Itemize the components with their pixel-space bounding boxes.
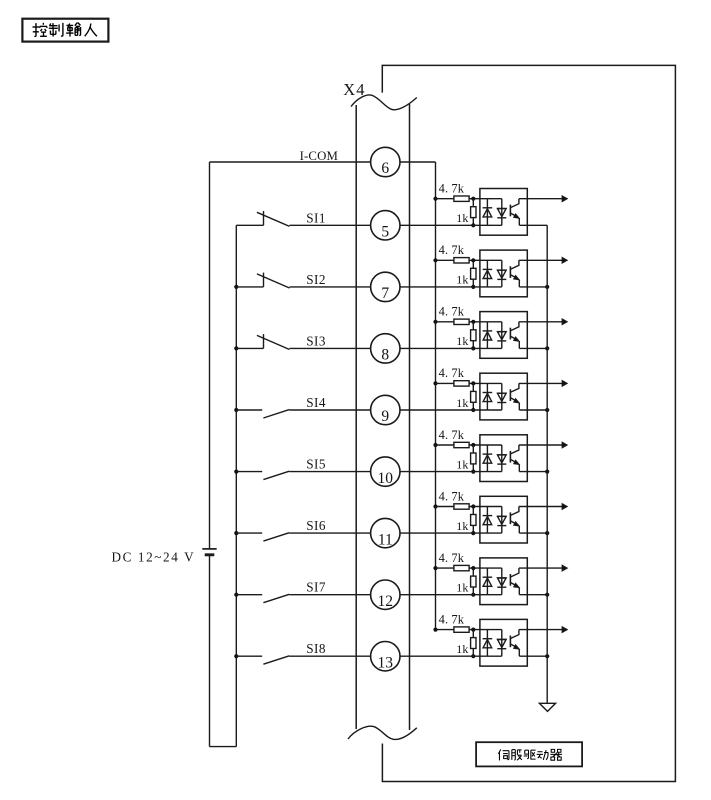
resistor R3b 1k xyxy=(472,322,474,330)
junction emitter bus (unit 8) xyxy=(545,654,549,658)
output wire with arrow (unit 4) xyxy=(519,382,562,384)
wire pin 9 to opto input (unit 4) xyxy=(400,409,502,411)
svg-text:1k: 1k xyxy=(456,211,468,225)
svg-text:SI4: SI4 xyxy=(306,395,326,410)
resistor R6a 4.7k xyxy=(436,506,454,508)
opto U5 LED D2 (down) xyxy=(497,454,507,456)
junction at pin row (unit 4) xyxy=(471,408,475,412)
unit 3 : junction on right bus xyxy=(433,320,437,324)
svg-text:10: 10 xyxy=(378,470,394,487)
wire pin 6 to right bus xyxy=(400,161,436,163)
junction SI5 on common bus xyxy=(234,470,238,474)
opto U8 LED D2 (down) xyxy=(497,638,507,640)
resistor R8a 4.7k xyxy=(436,629,454,631)
opto U6 LED rails xyxy=(486,507,488,534)
switch S8 for SI8 xyxy=(236,655,262,657)
junction emitter bus (unit 5) xyxy=(545,470,549,474)
wire pin 7 to opto input (unit 2) xyxy=(400,286,502,288)
unit 6 : junction on right bus xyxy=(433,504,437,508)
pin 13 circle xyxy=(371,642,400,671)
optocoupler U2 body xyxy=(480,250,527,297)
unit 4 : junction on right bus xyxy=(433,381,437,385)
junction after 4.7k (unit 7) xyxy=(471,566,475,570)
opto U7 LED rails xyxy=(486,568,488,595)
resistor R4a 4.7k xyxy=(436,382,454,384)
opto U3 LED rails xyxy=(486,322,488,349)
junction emitter bus (unit 3) xyxy=(545,346,549,350)
svg-text:12: 12 xyxy=(378,593,394,610)
opto U8 LED D1 (up) xyxy=(483,638,493,640)
junction at pin row (unit 1) xyxy=(471,223,475,227)
switch S3 for SI3 xyxy=(236,347,263,349)
svg-text:1k: 1k xyxy=(456,457,468,471)
opto U2 LED D1 (up) xyxy=(483,268,493,270)
junction at pin row (unit 7) xyxy=(471,593,475,597)
pin 7 circle xyxy=(371,272,400,301)
emitter wire (unit 7) xyxy=(519,594,547,596)
pin 8 circle xyxy=(371,334,400,363)
svg-text:SI3: SI3 xyxy=(306,333,326,348)
title box 控制输入 (control input) xyxy=(22,19,108,42)
opto U3 LED D2 (down) xyxy=(497,331,507,333)
optocoupler U6 body xyxy=(480,496,527,543)
output wire with arrow (unit 8) xyxy=(519,629,562,631)
resistor R5a 4.7k xyxy=(436,444,454,446)
resistor R1a 4.7k xyxy=(436,198,454,200)
svg-text:4. 7k: 4. 7k xyxy=(439,428,465,442)
emitter wire (unit 3) xyxy=(519,347,547,349)
unit 8 : junction on right bus xyxy=(433,628,437,632)
svg-text:1k: 1k xyxy=(456,581,468,595)
battery bus lower segment xyxy=(209,555,211,747)
junction SI2 on common bus xyxy=(234,285,238,289)
junction after 4.7k (unit 3) xyxy=(471,320,475,324)
opto U6 LED D1 (up) xyxy=(483,515,493,517)
unit 2 : junction on right bus xyxy=(433,258,437,262)
wire pin 8 to opto input (unit 3) xyxy=(400,347,502,349)
junction emitter bus (unit 7) xyxy=(545,593,549,597)
battery B1 positive plate xyxy=(202,548,216,550)
svg-text:DC 12~24 V: DC 12~24 V xyxy=(112,550,196,565)
pin 11 circle xyxy=(371,518,400,547)
resistor R2b 1k xyxy=(472,260,474,268)
junction emitter bus (unit 6) xyxy=(545,531,549,535)
svg-text:13: 13 xyxy=(378,654,394,671)
junction SI3 on common bus xyxy=(234,346,238,350)
svg-text:4. 7k: 4. 7k xyxy=(439,612,465,626)
opto U5 LED rails xyxy=(486,445,488,472)
svg-text:4. 7k: 4. 7k xyxy=(439,243,465,257)
opto U8 phototransistor Q8 xyxy=(509,636,511,648)
connector top break squiggle xyxy=(351,95,417,110)
svg-text:6: 6 xyxy=(381,160,389,177)
svg-text:SI2: SI2 xyxy=(306,272,326,287)
optocoupler U8 body xyxy=(480,619,527,666)
junction at pin row (unit 8) xyxy=(471,654,475,658)
resistor R8b 1k xyxy=(472,630,474,638)
connector X4 right rail xyxy=(409,104,411,730)
optocoupler U5 body xyxy=(480,435,527,482)
emitter common bus xyxy=(546,225,548,703)
resistor R5b 1k xyxy=(472,445,474,453)
connector X4 left rail xyxy=(355,105,357,729)
junction after 4.7k (unit 8) xyxy=(471,628,475,632)
svg-text:7: 7 xyxy=(381,285,389,302)
switch common bus (left) xyxy=(235,225,237,746)
svg-text:5: 5 xyxy=(381,224,389,241)
optocoupler U3 body xyxy=(480,312,527,359)
emitter wire (unit 8) xyxy=(519,655,547,657)
resistor R3a 4.7k xyxy=(436,321,454,323)
unit 7 : junction on right bus xyxy=(433,566,437,570)
svg-text:4. 7k: 4. 7k xyxy=(439,366,465,380)
svg-text:4. 7k: 4. 7k xyxy=(439,305,465,319)
right bus from I-COM down to last 4.7k tee xyxy=(435,162,437,630)
output wire with arrow (unit 1) xyxy=(519,198,562,200)
svg-text:SI1: SI1 xyxy=(306,210,326,225)
svg-text:11: 11 xyxy=(378,531,393,548)
pin 6 circle xyxy=(371,147,400,176)
resistor R1b 1k xyxy=(472,199,474,207)
wire pin 10 to opto input (unit 5) xyxy=(400,471,502,473)
junction after 4.7k (unit 4) xyxy=(471,381,475,385)
unit 1 : junction on right bus xyxy=(433,197,437,201)
emitter wire (unit 5) xyxy=(519,471,547,473)
output wire with arrow (unit 3) xyxy=(519,321,562,323)
switch S4 for SI4 xyxy=(236,409,262,411)
wire pin 13 to opto input (unit 8) xyxy=(400,655,502,657)
svg-text:1k: 1k xyxy=(456,519,468,533)
output wire with arrow (unit 6) xyxy=(519,506,562,508)
junction at pin row (unit 2) xyxy=(471,285,475,289)
resistor R4b 1k xyxy=(472,383,474,391)
switch S7 for SI7 xyxy=(236,594,262,596)
pin 12 circle xyxy=(371,580,400,609)
junction SI8 on common bus xyxy=(234,654,238,658)
opto U1 LED rails xyxy=(486,199,488,226)
junction SI7 on common bus xyxy=(234,593,238,597)
svg-text:4. 7k: 4. 7k xyxy=(439,551,465,565)
junction at pin row (unit 5) xyxy=(471,470,475,474)
opto U7 phototransistor Q7 xyxy=(509,574,511,586)
svg-text:1k: 1k xyxy=(456,396,468,410)
svg-text:SI8: SI8 xyxy=(306,641,326,656)
opto U4 LED D2 (down) xyxy=(497,392,507,394)
pin 10 circle xyxy=(371,457,400,486)
optocoupler U7 body xyxy=(480,558,527,605)
svg-text:1k: 1k xyxy=(456,273,468,287)
opto U1 LED D1 (up) xyxy=(483,207,493,209)
svg-text:8: 8 xyxy=(381,347,389,364)
output wire with arrow (unit 5) xyxy=(519,444,562,446)
opto U1 phototransistor Q1 xyxy=(509,205,511,217)
opto U6 LED D2 (down) xyxy=(497,515,507,517)
connector bottom break squiggle xyxy=(348,726,417,739)
opto U1 LED D2 (down) xyxy=(497,208,507,210)
svg-text:SI7: SI7 xyxy=(306,580,326,595)
junction after 4.7k (unit 6) xyxy=(471,504,475,508)
junction emitter bus (unit 4) xyxy=(545,408,549,412)
switch S2 for SI2 xyxy=(236,286,263,288)
bottom link wire between buses xyxy=(210,746,237,748)
opto U6 phototransistor Q6 xyxy=(509,512,511,524)
optocoupler U4 body xyxy=(480,373,527,420)
junction after 4.7k (unit 2) xyxy=(471,258,475,262)
opto U2 phototransistor Q2 xyxy=(509,266,511,278)
wire pin 12 to opto input (unit 7) xyxy=(400,594,502,596)
opto U3 phototransistor Q3 xyxy=(509,328,511,340)
svg-text:1k: 1k xyxy=(456,334,468,348)
svg-text:SI5: SI5 xyxy=(306,457,326,472)
ground symbol xyxy=(539,703,555,711)
opto U4 LED rails xyxy=(486,383,488,410)
resistor R2a 4.7k xyxy=(436,259,454,261)
optocoupler U1 body xyxy=(480,189,527,236)
opto U7 LED D1 (up) xyxy=(483,576,493,578)
wire pin 11 to opto input (unit 6) xyxy=(400,532,502,534)
emitter wire (unit 1) xyxy=(519,224,547,226)
opto U4 LED D1 (up) xyxy=(483,392,493,394)
svg-text:I-COM: I-COM xyxy=(300,149,338,163)
resistor R7a 4.7k xyxy=(436,567,454,569)
junction emitter bus (unit 2) xyxy=(545,285,549,289)
opto U5 phototransistor Q5 xyxy=(509,451,511,463)
junction after 4.7k (unit 5) xyxy=(471,443,475,447)
opto U4 phototransistor Q4 xyxy=(509,389,511,401)
junction at pin row (unit 6) xyxy=(471,531,475,535)
switch S6 for SI6 xyxy=(236,532,262,534)
unit 5 : junction on right bus xyxy=(433,443,437,447)
opto U8 LED rails xyxy=(486,630,488,657)
switch S5 for SI5 xyxy=(236,471,262,473)
opto U2 LED D2 (down) xyxy=(497,269,507,271)
label box 伺服驱动器 (servo driver) xyxy=(476,742,582,766)
output wire with arrow (unit 7) xyxy=(519,567,562,569)
emitter wire (unit 4) xyxy=(519,409,547,411)
resistor R6b 1k xyxy=(472,507,474,515)
svg-text:4. 7k: 4. 7k xyxy=(439,182,465,196)
svg-text:SI6: SI6 xyxy=(306,518,326,533)
battery bus (left) upper segment xyxy=(209,162,211,549)
junction SI4 on common bus xyxy=(234,408,238,412)
emitter wire (unit 2) xyxy=(519,286,547,288)
emitter wire (unit 6) xyxy=(519,532,547,534)
output wire with arrow (unit 2) xyxy=(519,259,562,261)
opto U5 LED D1 (up) xyxy=(483,453,493,455)
servo driver enclosure frame xyxy=(382,65,675,781)
resistor R7b 1k xyxy=(472,568,474,576)
junction SI6 on common bus xyxy=(234,531,238,535)
junction at pin row (unit 3) xyxy=(471,346,475,350)
opto U3 LED D1 (up) xyxy=(483,330,493,332)
pin 9 circle xyxy=(371,395,400,424)
pin 5 circle xyxy=(371,211,400,240)
switch S1 for SI1 xyxy=(236,224,263,226)
svg-text:4. 7k: 4. 7k xyxy=(439,489,465,503)
opto U2 LED rails xyxy=(486,260,488,287)
svg-text:9: 9 xyxy=(381,408,389,425)
wire I-COM from battery + bus to pin 6 xyxy=(210,161,371,163)
svg-text:1k: 1k xyxy=(456,642,468,656)
opto U7 LED D2 (down) xyxy=(497,577,507,579)
wire pin 5 to opto input (unit 1) xyxy=(400,224,502,226)
junction after 4.7k (unit 1) xyxy=(471,197,475,201)
battery B1 negative plate xyxy=(205,553,215,556)
